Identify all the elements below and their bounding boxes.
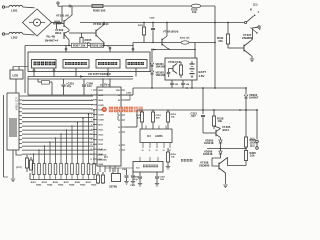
- svg-text:R312 10k: R312 10k: [180, 38, 190, 40]
- svg-text:10: 10: [118, 127, 120, 129]
- IC3 comparator LM358: [140, 129, 172, 143]
- svg-text:32768: 32768: [109, 185, 117, 189]
- transistor VT303: [96, 22, 105, 47]
- svg-text:OSC1: OSC1: [98, 129, 103, 131]
- battery cells: [190, 61, 195, 78]
- crystal B1 32768: [109, 170, 121, 189]
- wire mid charge rail: [133, 43, 215, 46]
- wire to R311: [227, 23, 229, 35]
- svg-text:R313: R313: [138, 25, 144, 27]
- wire left-edge ground run: [4, 95, 9, 177]
- diode VD305: [204, 139, 222, 146]
- svg-text:SEG3: SEG3: [98, 100, 103, 102]
- IC3 top pins: [146, 126, 166, 130]
- arrow junction: [80, 75, 84, 77]
- label transducer: [181, 159, 192, 162]
- wire right edge drop: [256, 109, 258, 139]
- IC3 bottom pins: [142, 143, 171, 153]
- svg-text:SEG1: SEG1: [98, 90, 103, 92]
- svg-text:11: 11: [91, 139, 93, 141]
- wire sense rail y110: [137, 109, 258, 111]
- terminal J2 (AC neutral): [2, 33, 9, 35]
- svg-text:2SD880: 2SD880: [199, 164, 210, 168]
- wire emitter to rail: [57, 24, 70, 47]
- resistor R305: [80, 33, 92, 47]
- IC4 top pins: [140, 157, 158, 162]
- svg-text:CK01: CK01: [98, 144, 103, 146]
- resistor R304 (series): [53, 21, 61, 25]
- svg-text:12: 12: [156, 150, 158, 152]
- wire between diodes: [151, 66, 153, 71]
- svg-text:10k: 10k: [192, 10, 197, 14]
- ground at C315: [138, 184, 142, 187]
- label VT303: [93, 22, 109, 26]
- svg-text:COM0: COM0: [98, 105, 103, 107]
- resistor R307 (boxed label): [72, 43, 88, 47]
- capacitor C309: [82, 79, 93, 95]
- wire VT305 emitter: [220, 138, 222, 140]
- svg-text:8: 8: [119, 145, 120, 147]
- svg-text:9: 9: [119, 132, 120, 134]
- svg-text:CK00: CK00: [98, 139, 103, 141]
- svg-text:1N4007×4: 1N4007×4: [45, 39, 59, 43]
- svg-text:5: 5: [91, 110, 92, 112]
- wire sensor rail: [151, 49, 153, 62]
- wire left bus rail: [24, 46, 26, 94]
- resistor R311: [217, 34, 230, 44]
- svg-text:9014: 9014: [223, 128, 230, 132]
- transistor VT306: [162, 22, 170, 50]
- svg-text:28: 28: [118, 100, 120, 102]
- svg-text:1N4148: 1N4148: [156, 73, 166, 77]
- wire crystal bus: [105, 168, 133, 170]
- junction at x228: [227, 22, 229, 24]
- wire switched V rail: [80, 22, 244, 24]
- capacitor C315: [133, 172, 142, 183]
- LED box: [10, 70, 23, 79]
- IC4 IR receiver box: [133, 162, 163, 173]
- svg-text:R306 300: R306 300: [93, 9, 106, 13]
- svg-text:L302: L302: [11, 36, 18, 40]
- label VT307: [242, 33, 253, 40]
- svg-text:7: 7: [91, 119, 92, 121]
- block anion generator: [32, 60, 57, 69]
- resistor R317 in box: [179, 62, 182, 78]
- terminal on rail: [69, 5, 71, 7]
- capacitor C317 in box: [167, 69, 170, 78]
- capacitor C310: [62, 79, 75, 95]
- svg-text:R332: R332: [91, 185, 97, 187]
- wire up to +rail: [61, 6, 63, 23]
- svg-text:47k: 47k: [218, 39, 223, 43]
- bridge rectifier UR1: [23, 9, 52, 36]
- wire matrix drop columns: [33, 109, 95, 163]
- svg-text:R308 10k: R308 10k: [92, 44, 105, 48]
- svg-text:COM2: COM2: [98, 115, 103, 117]
- label CTC: [16, 167, 22, 169]
- svg-text:VT301 A8: VT301 A8: [56, 14, 69, 18]
- resistor R306 on rail: [92, 4, 106, 12]
- LCD pin stubs: [19, 96, 22, 147]
- svg-text:VDD: VDD: [116, 90, 121, 92]
- wire LED to LCD: [15, 79, 17, 93]
- wire R311 to VT307 base: [228, 44, 244, 48]
- resistor R303: [29, 157, 32, 170]
- svg-text:C303: C303: [126, 93, 132, 95]
- capacitor C311: [136, 109, 144, 129]
- svg-text:1: 1: [91, 90, 92, 92]
- wire VT307 collector to output: [251, 27, 258, 41]
- capacitor C319 below box: [181, 80, 190, 88]
- module pin 13: [65, 45, 67, 52]
- wire rail corner down: [214, 6, 216, 23]
- terminal charge output: [258, 26, 260, 28]
- IC1 top pin wires: [100, 78, 111, 87]
- diode VD302: [150, 70, 165, 77]
- label BATT: [199, 70, 207, 78]
- bridge value label: [45, 35, 59, 43]
- wire charge sense: [153, 49, 195, 51]
- wire top +V rail: [62, 5, 215, 7]
- net label CD40: [88, 72, 107, 86]
- block humidity sensor: [63, 60, 89, 69]
- svg-text:4.7μ: 4.7μ: [134, 178, 139, 181]
- svg-text:1N4148: 1N4148: [203, 152, 213, 156]
- transistor VT308: [219, 159, 226, 173]
- ground at VT307: [250, 59, 254, 62]
- svg-text:16: 16: [90, 164, 92, 166]
- svg-text:VSS0: VSS0: [98, 164, 103, 166]
- svg-text:120k: 120k: [250, 141, 256, 145]
- svg-text:104: 104: [87, 84, 92, 88]
- wire module supply rail: [25, 45, 133, 47]
- svg-text:PTC949EX: PTC949EX: [96, 72, 111, 76]
- wire array bottom bus: [30, 173, 97, 180]
- svg-text:7: 7: [119, 150, 120, 152]
- resistor R302: [25, 155, 28, 172]
- svg-text:2SD880: 2SD880: [242, 36, 253, 40]
- resistor array R321-R332: [32, 164, 95, 180]
- IC1 bottom pin labels: [98, 149, 108, 162]
- diode VD303 branch: [244, 87, 259, 111]
- resistor R313a below rail: [138, 22, 146, 43]
- wire base rail y148.5: [207, 148, 247, 150]
- svg-text:9013: 9013: [55, 31, 62, 35]
- watermark text 维库电子市场网: [109, 107, 143, 113]
- capacitor C308 below rail: [150, 18, 156, 44]
- wire VT308 collector: [226, 158, 247, 166]
- terminal humidifier out A: [256, 140, 259, 143]
- wire IC1 to IC3: [125, 110, 137, 127]
- capacitor C305: [130, 170, 136, 187]
- label VT305: [222, 125, 231, 132]
- svg-text:VT304 S40: VT304 S40: [168, 60, 182, 64]
- LCD display box: [7, 93, 19, 150]
- battery box: [165, 58, 197, 80]
- label VT304: [168, 60, 182, 64]
- svg-text:R330: R330: [80, 185, 86, 187]
- capacitor C316: [155, 172, 166, 183]
- svg-text:C308: C308: [150, 18, 156, 20]
- svg-text:IC3: IC3: [147, 135, 151, 138]
- svg-text:1N4148: 1N4148: [204, 141, 214, 145]
- svg-text:CD 40: CD 40: [88, 72, 96, 76]
- transistor VT304: [169, 64, 178, 74]
- resistor R318: [212, 110, 224, 126]
- svg-text:LED: LED: [13, 73, 19, 77]
- resistor R308 (boxed label): [91, 43, 105, 47]
- block temperature sensor: [96, 60, 120, 69]
- resistor R320: [244, 151, 256, 166]
- svg-text:R307 10k: R307 10k: [73, 44, 86, 48]
- svg-text:29: 29: [118, 95, 120, 97]
- svg-text:R322: R322: [36, 185, 42, 187]
- svg-text:HT46R: HT46R: [116, 112, 120, 120]
- svg-text:C040-CLA: C040-CLA: [98, 153, 108, 156]
- wire LED pins: [13, 67, 28, 71]
- resistor R312: [96, 172, 99, 184]
- label VT308: [199, 161, 210, 168]
- svg-text:R316: R316: [171, 154, 177, 156]
- module pin 10: [107, 46, 111, 52]
- wire battery minus down: [191, 80, 203, 110]
- wire bus A under module: [28, 76, 133, 78]
- transistor VT305: [203, 126, 221, 138]
- svg-text:.047: .047: [191, 114, 197, 118]
- svg-text:(CTC): (CTC): [16, 167, 22, 169]
- wire VT307 emitter to ground: [251, 55, 253, 59]
- svg-text:C304: C304: [122, 168, 128, 171]
- module outer box PTC949EX: [28, 52, 150, 72]
- capacitor C313: [191, 110, 206, 133]
- ground at VT308: [223, 185, 227, 188]
- wire bridge + output: [52, 22, 63, 24]
- block pin stubs: [33, 68, 136, 77]
- wire L301 to bridge: [23, 6, 35, 9]
- svg-text:11: 11: [149, 150, 151, 152]
- resistor R309: [38, 79, 52, 95]
- wire VD302 to gnd bus: [151, 74, 153, 89]
- wire LCD segment bus (lower): [22, 130, 93, 154]
- svg-text:6: 6: [91, 114, 92, 116]
- wire down to battery box: [194, 43, 196, 59]
- svg-text:COM3: COM3: [98, 120, 103, 122]
- svg-text:4.8V: 4.8V: [199, 74, 205, 78]
- node/terminal on + rail: [57, 2, 62, 6]
- svg-text:C040-SDA: C040-SDA: [98, 158, 108, 161]
- wire base link: [69, 32, 96, 34]
- resistor R319: [244, 109, 256, 150]
- wire IC1 pin to bus: [125, 93, 133, 101]
- resistor array labels: [31, 182, 97, 187]
- wire diode junction: [220, 143, 222, 151]
- capacitor C304: [122, 168, 129, 184]
- svg-text:15: 15: [118, 120, 120, 122]
- svg-text:OSC2: OSC2: [98, 134, 103, 136]
- label VT301: [56, 14, 69, 18]
- svg-text:R328: R328: [69, 185, 75, 187]
- wire LCD bottom bend: [11, 150, 22, 182]
- resistor R316: [166, 148, 177, 169]
- svg-text:14: 14: [169, 149, 171, 152]
- module pin 14: [132, 45, 134, 52]
- capacitor C318 below box: [170, 80, 179, 88]
- svg-text:C305: C305: [130, 185, 136, 187]
- svg-text:1N4007: 1N4007: [249, 96, 259, 100]
- wire charge feed rail: [214, 23, 216, 89]
- wire module ground bus: [28, 94, 133, 96]
- svg-text:10k: 10k: [218, 119, 223, 123]
- diode VD306: [203, 150, 222, 157]
- resistor R312 on charge rail: [180, 38, 190, 45]
- svg-text:15: 15: [90, 159, 92, 161]
- transistor VT301: [57, 6, 73, 30]
- ground at C316: [155, 184, 159, 187]
- resistor R314: [166, 109, 176, 129]
- svg-text:47μ: 47μ: [67, 84, 72, 88]
- svg-text:L301: L301: [11, 9, 18, 13]
- label VT306: [163, 31, 178, 34]
- inductor L302: [9, 32, 23, 39]
- module name label: [96, 72, 111, 76]
- svg-text:SEG2: SEG2: [98, 95, 103, 97]
- capacitor C312: [151, 109, 161, 129]
- block power control: [126, 60, 147, 69]
- svg-text:10k: 10k: [250, 154, 255, 158]
- svg-text:13: 13: [163, 150, 165, 152]
- wire bus B under module: [28, 77, 133, 96]
- inductor L301: [9, 5, 23, 12]
- wire LCD segment bus (upper): [22, 96, 93, 126]
- label VT302: [55, 28, 64, 35]
- diode VD301: [150, 62, 165, 69]
- wire right ground bus: [133, 87, 246, 95]
- svg-text:R314: R314: [171, 113, 177, 116]
- svg-text:SET1: SET1: [98, 125, 103, 127]
- wire VT308 emitter to gnd: [225, 173, 227, 184]
- svg-text:LCD 7066A: LCD 7066A: [15, 97, 19, 111]
- terminal humidifier out B: [256, 143, 259, 149]
- watermark logo: [102, 107, 107, 112]
- wire to VT308 base: [212, 154, 221, 166]
- transistor VT302: [64, 30, 69, 46]
- fuse F301: [191, 4, 201, 14]
- transistor VT307: [244, 41, 251, 55]
- svg-text:C040-CK0: C040-CK0: [98, 149, 107, 152]
- terminal J1 (AC line): [2, 6, 9, 8]
- resistor R313: [101, 172, 104, 184]
- svg-text:1N4148: 1N4148: [156, 65, 166, 69]
- svg-text:R326: R326: [58, 185, 64, 187]
- svg-text:10: 10: [142, 150, 144, 152]
- IC1 controller HT46R232: [90, 87, 125, 172]
- svg-text:VT306 (9014): VT306 (9014): [163, 31, 178, 34]
- svg-text:LM358: LM358: [155, 135, 163, 138]
- label humidifier terminals: [250, 138, 255, 147]
- wire L302 to bridge: [23, 34, 35, 35]
- svg-text:C316: C316: [160, 177, 166, 179]
- power switch K301: [245, 4, 262, 34]
